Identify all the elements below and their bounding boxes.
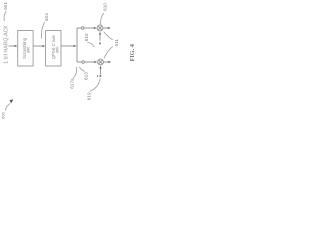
wire input arrow to scrambling unit: [9, 45, 18, 47]
leader label 611 upper tail: [104, 32, 113, 40]
wire bottom branch left: [77, 61, 82, 63]
svg-text:600: 600: [1, 112, 6, 119]
svg-text:1 bit HARQ-ACK: 1 bit HARQ-ACK: [3, 25, 9, 64]
multiplier bottom 611: [98, 59, 104, 65]
svg-text:FIG. 4: FIG. 4: [129, 44, 136, 61]
wire branch vertical: [76, 28, 78, 62]
box QPSK C rule unit 605: [46, 31, 61, 67]
wire top branch right with arrow into multiplier: [84, 27, 97, 29]
svg-text:unit: unit: [26, 46, 31, 54]
leader label 604 between boxes: [41, 22, 44, 39]
box scrambling unit 603: [18, 31, 33, 67]
wire arrow QPSK to branch node: [61, 45, 77, 47]
wire output arrow bottom multiplier: [104, 61, 112, 63]
pin mark under bottom multiplier up-arrow: [100, 75, 102, 77]
node circle bottom branch: [82, 61, 85, 64]
wire output arrow top multiplier: [103, 27, 111, 29]
leader label 617a: [73, 67, 77, 79]
wire bottom branch right with arrow into multiplier: [85, 61, 98, 63]
multiplier top 610: [97, 25, 103, 31]
wire up arrow into top multiplier: [99, 32, 101, 41]
wire top branch left: [77, 27, 81, 29]
leader label 613: [79, 67, 84, 72]
svg-text:615: 615: [84, 33, 89, 41]
svg-text:610: 610: [102, 3, 107, 11]
svg-text:unit: unit: [55, 46, 60, 54]
leader label 611 lower tail: [104, 47, 113, 59]
leader label 610: [100, 13, 103, 25]
arrow figure reference 600: [5, 99, 13, 110]
svg-text:617a: 617a: [70, 78, 75, 89]
svg-text:611: 611: [114, 39, 119, 47]
leader label 601: [4, 11, 6, 21]
svg-text:619: 619: [87, 92, 92, 100]
pin mark under top multiplier up-arrow: [99, 42, 101, 44]
wire arrow scrambling to QPSK: [33, 45, 45, 47]
svg-text:613: 613: [84, 72, 89, 80]
node circle top branch: [81, 27, 84, 30]
leader label 615 mid: [87, 42, 94, 47]
svg-text:601: 601: [3, 2, 8, 10]
wire up arrow into bottom multiplier: [99, 66, 101, 75]
svg-text:604: 604: [44, 13, 49, 21]
leader label 619 bottom: [90, 79, 100, 92]
